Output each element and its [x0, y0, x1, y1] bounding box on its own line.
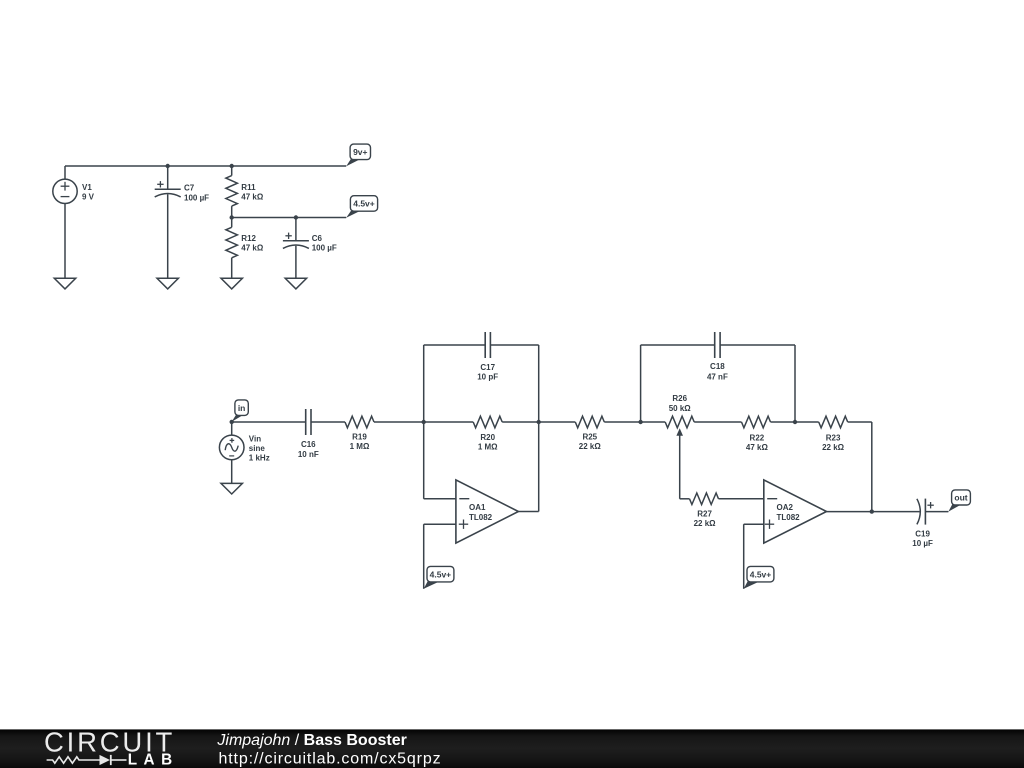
svg-text:10 µF: 10 µF	[912, 539, 933, 548]
svg-text:R11: R11	[241, 183, 256, 192]
svg-text:1 MΩ: 1 MΩ	[478, 443, 498, 452]
svg-text:9v+: 9v+	[353, 147, 367, 157]
svg-text:47 kΩ: 47 kΩ	[241, 244, 264, 253]
svg-text:100 µF: 100 µF	[184, 193, 209, 202]
svg-text:50 kΩ: 50 kΩ	[669, 404, 692, 413]
svg-text:10 nF: 10 nF	[298, 450, 319, 459]
svg-text:4.5v+: 4.5v+	[750, 569, 772, 579]
svg-text:C6: C6	[312, 234, 323, 243]
svg-text:10 pF: 10 pF	[477, 373, 498, 382]
svg-text:47 nF: 47 nF	[707, 372, 728, 381]
svg-text:Jimpajohn / Bass Booster: Jimpajohn / Bass Booster	[216, 732, 406, 749]
svg-text:1 kHz: 1 kHz	[249, 453, 270, 462]
svg-text:R12: R12	[241, 234, 256, 243]
svg-text:9 V: 9 V	[82, 193, 95, 202]
svg-text:sine: sine	[249, 444, 266, 453]
svg-text:C17: C17	[480, 363, 495, 372]
svg-text:C7: C7	[184, 184, 195, 193]
svg-text:Vin: Vin	[249, 435, 261, 444]
svg-text:TL082: TL082	[777, 513, 801, 522]
svg-text:out: out	[954, 493, 967, 503]
svg-text:OA1: OA1	[469, 503, 486, 512]
svg-text:R20: R20	[480, 433, 495, 442]
svg-text:4.5v+: 4.5v+	[430, 569, 452, 579]
svg-text:100 µF: 100 µF	[312, 244, 337, 253]
svg-text:C19: C19	[915, 529, 930, 538]
svg-text:47 kΩ: 47 kΩ	[746, 443, 769, 452]
svg-text:http://circuitlab.com/cx5qrpz: http://circuitlab.com/cx5qrpz	[219, 751, 442, 768]
svg-text:R26: R26	[672, 394, 687, 403]
svg-text:R25: R25	[582, 432, 597, 441]
svg-text:22 kΩ: 22 kΩ	[579, 442, 602, 451]
svg-text:in: in	[238, 403, 246, 413]
svg-text:R27: R27	[697, 509, 712, 518]
svg-text:TL082: TL082	[469, 513, 493, 522]
svg-text:1 MΩ: 1 MΩ	[350, 442, 370, 451]
svg-text:22 kΩ: 22 kΩ	[694, 519, 717, 528]
svg-text:R22: R22	[750, 433, 765, 442]
svg-text:V1: V1	[82, 183, 92, 192]
svg-text:47 kΩ: 47 kΩ	[241, 193, 264, 202]
svg-text:4.5v+: 4.5v+	[353, 199, 375, 209]
svg-text:R23: R23	[826, 433, 841, 442]
svg-text:C16: C16	[301, 440, 316, 449]
svg-text:LAB: LAB	[128, 751, 179, 768]
svg-text:C18: C18	[710, 362, 725, 371]
svg-text:22 kΩ: 22 kΩ	[822, 443, 845, 452]
svg-text:R19: R19	[352, 432, 367, 441]
svg-text:OA2: OA2	[777, 503, 794, 512]
